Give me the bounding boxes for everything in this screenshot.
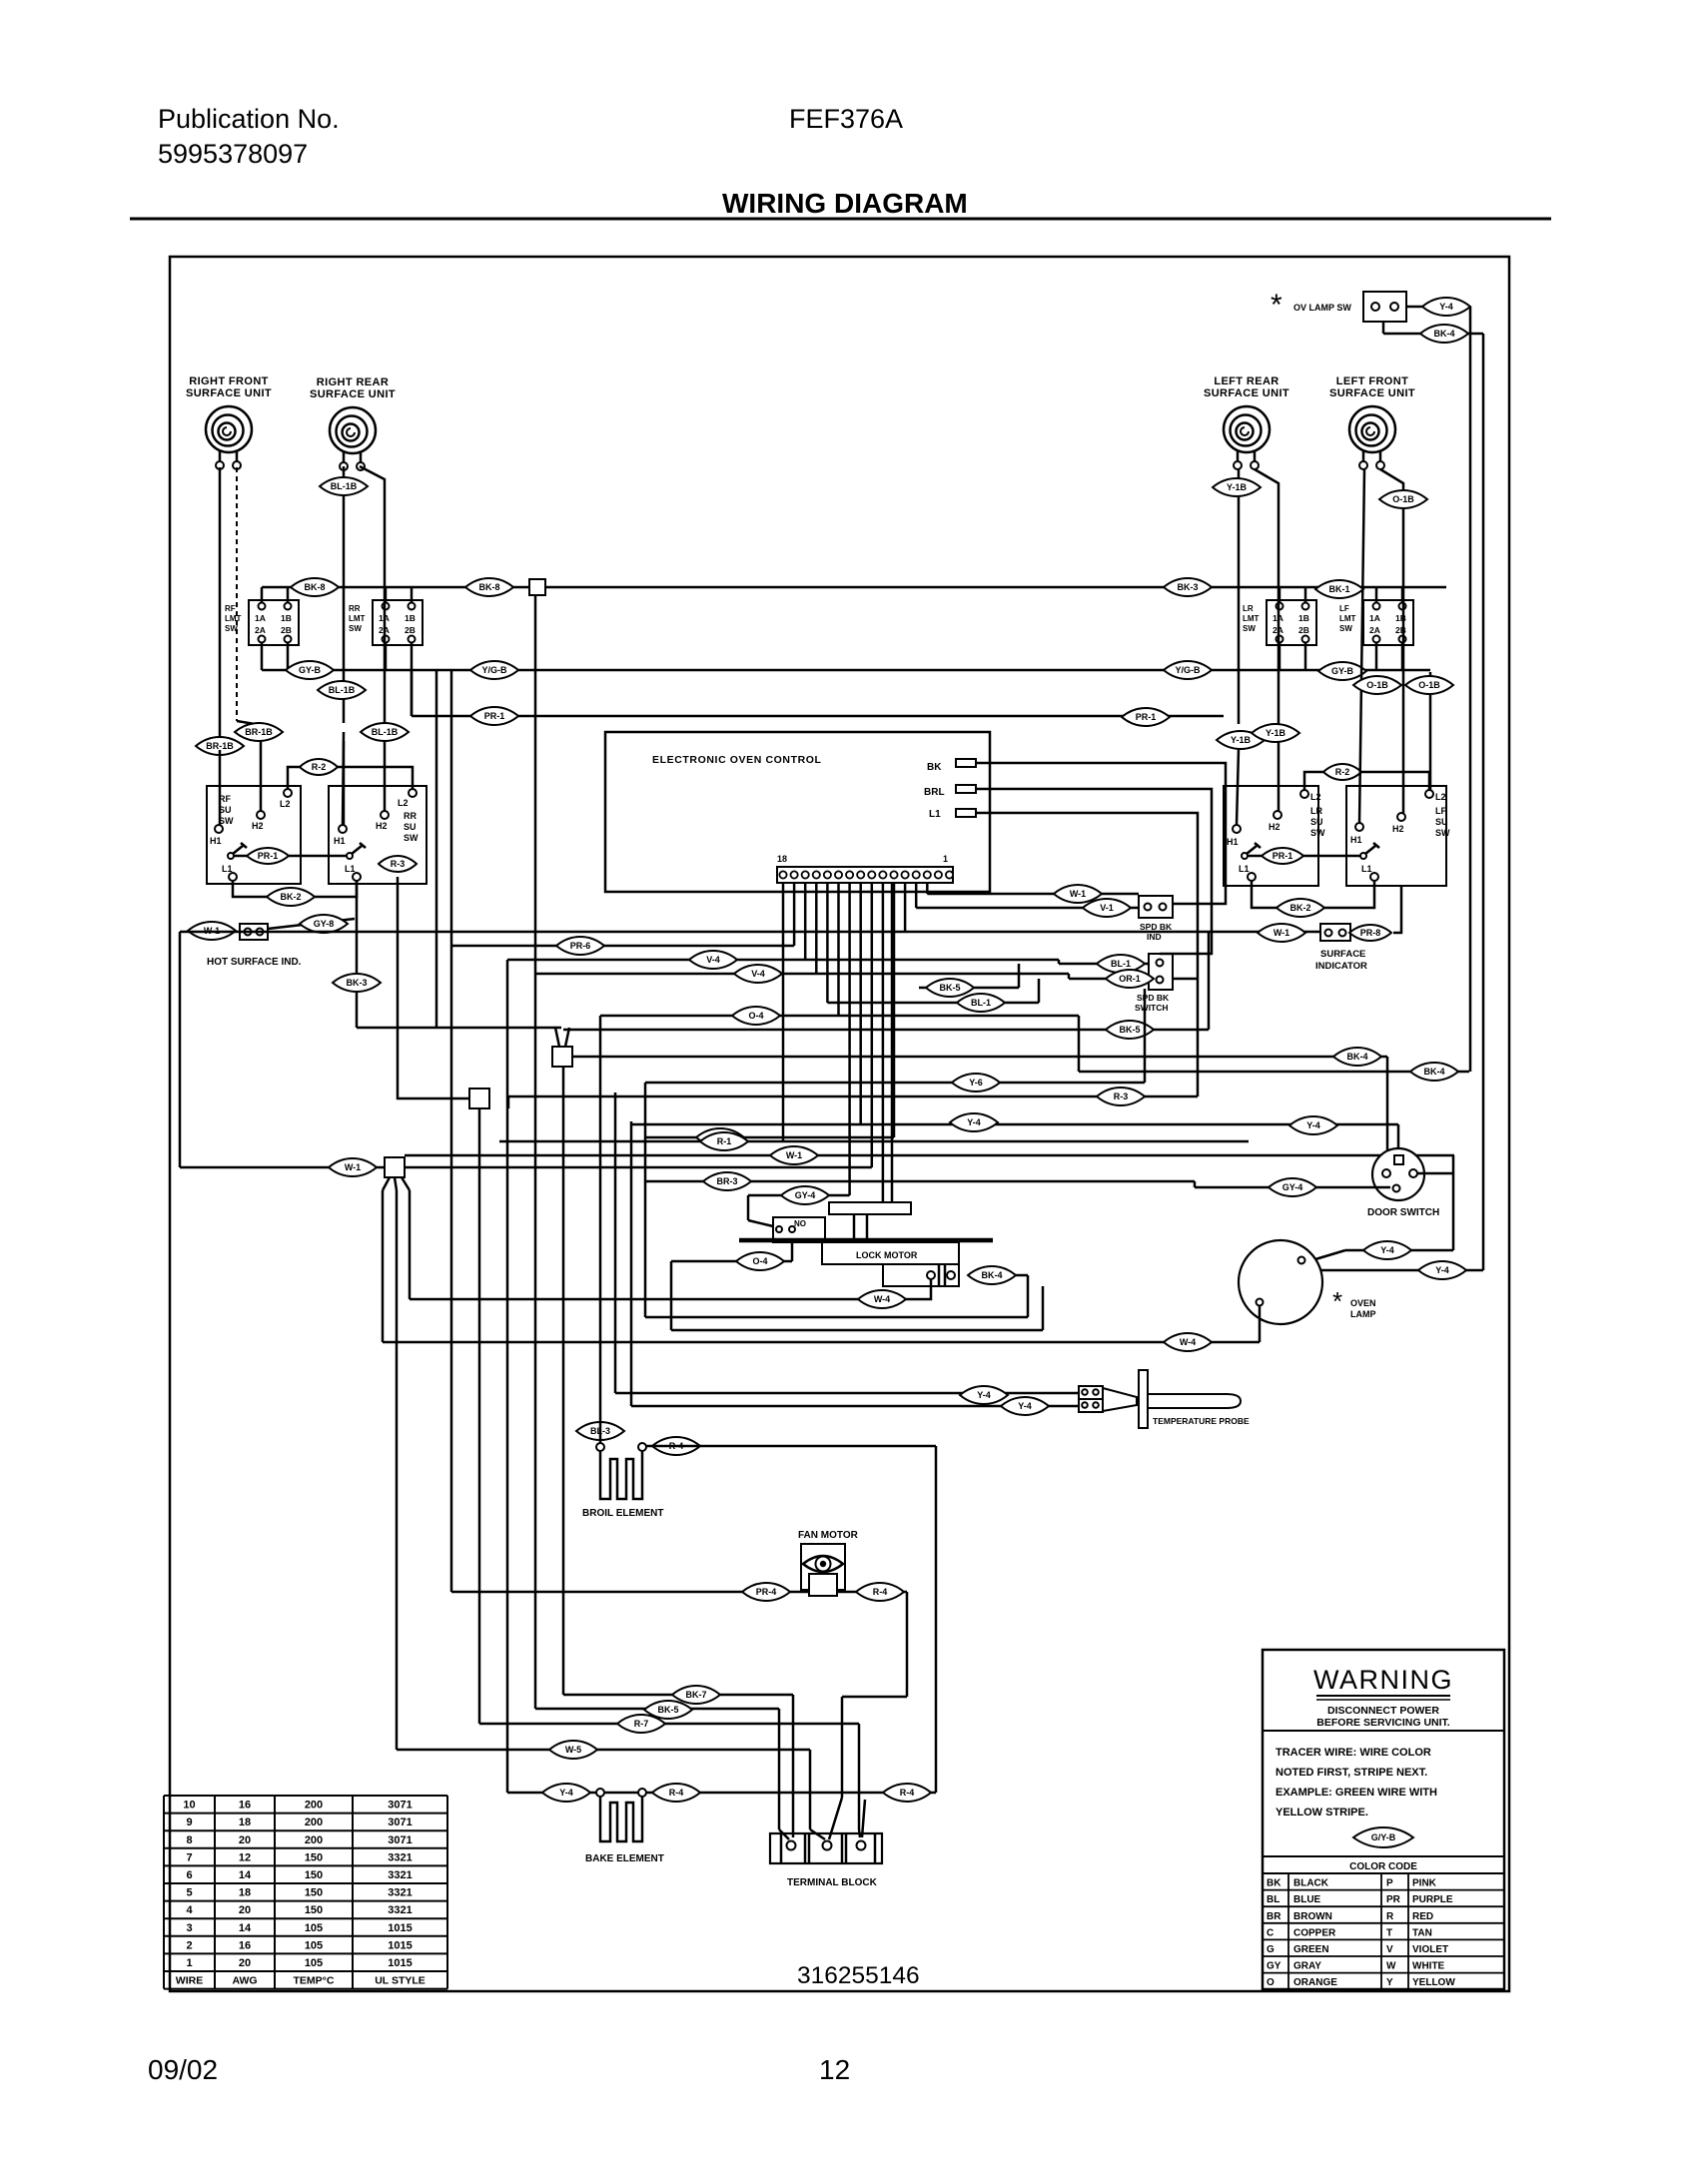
svg-text:H1: H1 — [1227, 837, 1239, 847]
svg-text:L1: L1 — [345, 864, 356, 874]
svg-text:HOT SURFACE IND.: HOT SURFACE IND. — [207, 957, 302, 968]
svg-text:BK-8: BK-8 — [304, 582, 325, 592]
svg-text:ELECTRONIC OVEN CONTROL: ELECTRONIC OVEN CONTROL — [652, 754, 822, 766]
svg-text:3: 3 — [186, 1922, 192, 1934]
svg-text:SW: SW — [219, 816, 234, 826]
svg-text:R: R — [1386, 1911, 1394, 1922]
svg-text:O-1B: O-1B — [1366, 680, 1388, 690]
svg-text:1015: 1015 — [388, 1957, 412, 1969]
svg-text:NO: NO — [794, 1219, 806, 1228]
svg-text:200: 200 — [305, 1800, 323, 1812]
svg-text:BL-1B: BL-1B — [372, 727, 399, 737]
svg-text:L2: L2 — [1435, 792, 1446, 802]
svg-text:DISCONNECT POWER: DISCONNECT POWER — [1327, 1705, 1439, 1717]
svg-text:Y-4: Y-4 — [1306, 1120, 1320, 1130]
svg-text:3071: 3071 — [388, 1817, 412, 1828]
svg-text:12: 12 — [819, 2054, 850, 2085]
svg-text:BAKE ELEMENT: BAKE ELEMENT — [585, 1853, 664, 1864]
svg-text:L2: L2 — [398, 798, 409, 808]
svg-text:OR-1: OR-1 — [1119, 974, 1141, 984]
svg-text:150: 150 — [305, 1851, 323, 1863]
svg-text:W-5: W-5 — [565, 1745, 581, 1755]
svg-text:3321: 3321 — [388, 1851, 412, 1863]
svg-text:BK-5: BK-5 — [657, 1705, 678, 1715]
svg-text:EXAMPLE: GREEN WIRE WITH: EXAMPLE: GREEN WIRE WITH — [1276, 1787, 1437, 1799]
svg-text:BK-3: BK-3 — [346, 978, 367, 988]
svg-text:PURPLE: PURPLE — [1412, 1894, 1453, 1905]
svg-text:L1: L1 — [929, 809, 941, 820]
svg-text:GRAY: GRAY — [1293, 1961, 1321, 1972]
svg-text:2B: 2B — [405, 625, 416, 635]
svg-text:BK-7: BK-7 — [685, 1690, 706, 1700]
svg-text:BK-4: BK-4 — [1433, 329, 1454, 339]
svg-text:BRL: BRL — [924, 787, 945, 798]
svg-text:LMT: LMT — [225, 614, 242, 623]
svg-text:L2: L2 — [1310, 792, 1321, 802]
svg-text:TEMPERATURE PROBE: TEMPERATURE PROBE — [1153, 1416, 1250, 1426]
svg-text:SURFACE UNIT: SURFACE UNIT — [1329, 387, 1415, 399]
svg-text:Y-6: Y-6 — [969, 1078, 983, 1088]
svg-text:L1: L1 — [1239, 864, 1250, 874]
svg-text:OV LAMP SW: OV LAMP SW — [1293, 303, 1351, 313]
svg-text:TAN: TAN — [1412, 1927, 1432, 1938]
svg-text:PR-8: PR-8 — [1360, 928, 1381, 938]
svg-text:H2: H2 — [376, 821, 388, 831]
svg-text:PR-1: PR-1 — [484, 711, 505, 721]
svg-text:316255146: 316255146 — [797, 1962, 920, 1989]
svg-text:BL: BL — [1267, 1894, 1280, 1905]
svg-text:BK-2: BK-2 — [280, 892, 301, 902]
svg-text:SURFACE: SURFACE — [1320, 949, 1365, 960]
svg-text:4: 4 — [186, 1904, 193, 1916]
svg-text:1A: 1A — [255, 613, 266, 623]
svg-text:Y/G-B: Y/G-B — [1175, 665, 1201, 675]
svg-text:3321: 3321 — [388, 1904, 412, 1916]
svg-text:NOTED FIRST, STRIPE NEXT.: NOTED FIRST, STRIPE NEXT. — [1276, 1767, 1427, 1779]
svg-text:BK-8: BK-8 — [478, 582, 499, 592]
svg-text:3071: 3071 — [388, 1800, 412, 1812]
svg-text:GY-8: GY-8 — [314, 919, 335, 929]
svg-text:BK: BK — [927, 762, 942, 773]
svg-text:105: 105 — [305, 1922, 323, 1934]
svg-text:SWITCH: SWITCH — [1135, 1003, 1169, 1013]
svg-text:SU: SU — [404, 822, 417, 832]
svg-text:10: 10 — [183, 1800, 195, 1812]
svg-text:2B: 2B — [281, 625, 292, 635]
svg-text:C: C — [1267, 1927, 1274, 1938]
svg-text:GY-B: GY-B — [1331, 666, 1354, 676]
svg-text:G/Y-B: G/Y-B — [1371, 1832, 1396, 1842]
svg-text:L1: L1 — [1361, 864, 1372, 874]
svg-text:RIGHT REAR: RIGHT REAR — [317, 376, 389, 388]
svg-text:SW: SW — [404, 833, 419, 843]
svg-text:200: 200 — [305, 1834, 323, 1846]
svg-text:R-4: R-4 — [669, 1788, 684, 1798]
svg-text:V-4: V-4 — [751, 969, 765, 979]
svg-text:BR-3: BR-3 — [716, 1176, 737, 1186]
svg-text:COLOR CODE: COLOR CODE — [1349, 1861, 1417, 1872]
svg-text:T: T — [1386, 1927, 1392, 1938]
svg-text:BK: BK — [1267, 1878, 1281, 1889]
svg-text:O-1B: O-1B — [1392, 494, 1414, 504]
svg-text:Y-4: Y-4 — [1439, 302, 1453, 312]
svg-text:1B: 1B — [1298, 613, 1309, 623]
svg-text:1A: 1A — [1369, 613, 1380, 623]
svg-text:AWG: AWG — [232, 1975, 257, 1987]
svg-text:R-7: R-7 — [634, 1719, 649, 1729]
svg-text:FEF376A: FEF376A — [789, 104, 903, 134]
svg-text:R-4: R-4 — [900, 1788, 915, 1798]
svg-text:16: 16 — [239, 1800, 251, 1812]
svg-text:H2: H2 — [252, 821, 264, 831]
svg-text:LR: LR — [1243, 604, 1254, 613]
svg-text:BL-1B: BL-1B — [329, 685, 356, 695]
svg-text:PR-1: PR-1 — [258, 851, 279, 861]
svg-text:Y-1B: Y-1B — [1266, 728, 1286, 738]
svg-text:H1: H1 — [334, 836, 346, 846]
svg-text:GY: GY — [1267, 1961, 1281, 1972]
svg-text:*: * — [1271, 289, 1282, 322]
svg-text:TERMINAL BLOCK: TERMINAL BLOCK — [787, 1877, 878, 1888]
svg-text:SPD BK: SPD BK — [1137, 993, 1170, 1003]
svg-text:SU: SU — [1435, 817, 1448, 827]
svg-text:FAN MOTOR: FAN MOTOR — [798, 1530, 859, 1541]
svg-text:5: 5 — [186, 1887, 192, 1899]
svg-text:Y/G-B: Y/G-B — [481, 665, 507, 675]
svg-text:TEMP°C: TEMP°C — [294, 1975, 335, 1987]
svg-text:Y-4: Y-4 — [1435, 1265, 1449, 1275]
svg-text:Y-4: Y-4 — [977, 1390, 991, 1400]
svg-text:Y: Y — [1386, 1977, 1393, 1988]
svg-text:W-1: W-1 — [786, 1150, 802, 1160]
svg-text:YELLOW STRIPE.: YELLOW STRIPE. — [1276, 1807, 1368, 1819]
svg-text:150: 150 — [305, 1869, 323, 1881]
svg-text:TRACER WIRE: WIRE COLOR: TRACER WIRE: WIRE COLOR — [1276, 1747, 1431, 1759]
svg-text:150: 150 — [305, 1904, 323, 1916]
svg-text:105: 105 — [305, 1939, 323, 1951]
svg-text:SW: SW — [1435, 828, 1450, 838]
svg-text:PR-6: PR-6 — [570, 941, 591, 951]
svg-text:2: 2 — [186, 1939, 192, 1951]
svg-text:L2: L2 — [280, 799, 291, 809]
svg-text:BK-1: BK-1 — [1328, 584, 1349, 594]
svg-text:9: 9 — [186, 1817, 192, 1828]
svg-text:Publication No.: Publication No. — [158, 104, 340, 134]
svg-text:12: 12 — [239, 1851, 251, 1863]
svg-text:2A: 2A — [1369, 625, 1380, 635]
svg-text:WHITE: WHITE — [1412, 1961, 1445, 1972]
svg-text:V-4: V-4 — [706, 955, 720, 965]
svg-text:14: 14 — [239, 1922, 252, 1934]
svg-text:W-4: W-4 — [874, 1294, 890, 1304]
svg-text:W-1: W-1 — [1274, 928, 1289, 938]
svg-text:3071: 3071 — [388, 1834, 412, 1846]
svg-text:R-1: R-1 — [717, 1136, 732, 1146]
svg-text:3321: 3321 — [388, 1887, 412, 1899]
svg-text:*: * — [1332, 1286, 1342, 1316]
svg-text:W: W — [1386, 1961, 1396, 1972]
svg-text:7: 7 — [186, 1851, 192, 1863]
svg-text:GY-4: GY-4 — [1282, 1182, 1303, 1192]
svg-text:LR: LR — [1310, 806, 1322, 816]
svg-text:RR: RR — [349, 604, 361, 613]
svg-text:6: 6 — [186, 1869, 192, 1881]
svg-text:3321: 3321 — [388, 1869, 412, 1881]
svg-text:BK-2: BK-2 — [1289, 903, 1310, 913]
svg-text:DOOR SWITCH: DOOR SWITCH — [1367, 1207, 1439, 1218]
svg-text:1B: 1B — [405, 613, 416, 623]
svg-text:RED: RED — [1412, 1911, 1433, 1922]
svg-text:R-3: R-3 — [1114, 1092, 1129, 1101]
svg-text:BROIL ELEMENT: BROIL ELEMENT — [582, 1508, 663, 1519]
svg-text:RIGHT FRONT: RIGHT FRONT — [189, 375, 269, 387]
svg-text:16: 16 — [239, 1939, 251, 1951]
svg-text:BK-5: BK-5 — [1119, 1025, 1140, 1035]
svg-text:200: 200 — [305, 1817, 323, 1828]
svg-text:BL-1B: BL-1B — [331, 481, 358, 491]
svg-text:105: 105 — [305, 1957, 323, 1969]
svg-text:WIRING DIAGRAM: WIRING DIAGRAM — [722, 188, 968, 219]
svg-text:UL STYLE: UL STYLE — [375, 1975, 426, 1987]
svg-text:SPD BK: SPD BK — [1140, 922, 1173, 932]
svg-text:BR-1B: BR-1B — [245, 727, 273, 737]
svg-text:Y-1B: Y-1B — [1231, 735, 1252, 745]
svg-text:O-4: O-4 — [748, 1011, 763, 1021]
svg-text:V: V — [1386, 1944, 1393, 1955]
svg-text:GY-B: GY-B — [299, 665, 322, 675]
svg-text:18: 18 — [239, 1817, 251, 1828]
svg-text:ORANGE: ORANGE — [1293, 1977, 1337, 1988]
svg-text:H2: H2 — [1392, 824, 1404, 834]
svg-text:2B: 2B — [1298, 625, 1309, 635]
svg-text:Y-1B: Y-1B — [1227, 482, 1248, 492]
svg-text:LMT: LMT — [1339, 614, 1356, 623]
svg-text:1: 1 — [943, 854, 948, 864]
svg-text:O-1B: O-1B — [1418, 680, 1440, 690]
svg-text:BR: BR — [1267, 1911, 1281, 1922]
svg-text:LAMP: LAMP — [1350, 1309, 1376, 1319]
svg-text:1: 1 — [186, 1957, 192, 1969]
svg-text:R-2: R-2 — [312, 762, 327, 772]
svg-text:P: P — [1386, 1878, 1393, 1889]
svg-text:RR: RR — [404, 811, 417, 821]
svg-text:2A: 2A — [255, 625, 266, 635]
svg-text:PINK: PINK — [1412, 1878, 1437, 1889]
svg-text:Y-4: Y-4 — [559, 1788, 573, 1798]
svg-text:20: 20 — [239, 1834, 251, 1846]
svg-text:SW: SW — [1339, 624, 1352, 633]
svg-text:COPPER: COPPER — [1293, 1927, 1336, 1938]
svg-text:Y-4: Y-4 — [1380, 1245, 1394, 1255]
svg-text:LF: LF — [1339, 604, 1349, 613]
svg-text:O: O — [1267, 1977, 1275, 1988]
svg-text:1B: 1B — [281, 613, 292, 623]
svg-text:1015: 1015 — [388, 1939, 412, 1951]
svg-text:SW: SW — [1243, 624, 1256, 633]
svg-text:W-1: W-1 — [345, 1162, 361, 1172]
svg-text:W-1: W-1 — [1070, 889, 1086, 899]
svg-text:20: 20 — [239, 1957, 251, 1969]
svg-text:BL-1: BL-1 — [1111, 959, 1131, 969]
svg-text:8: 8 — [186, 1834, 192, 1846]
svg-text:LF: LF — [1435, 806, 1446, 816]
svg-text:OVEN: OVEN — [1350, 1298, 1376, 1308]
svg-text:5995378097: 5995378097 — [158, 139, 308, 169]
svg-text:GREEN: GREEN — [1293, 1944, 1329, 1955]
svg-text:18: 18 — [777, 854, 787, 864]
svg-text:PR-1: PR-1 — [1273, 851, 1293, 861]
svg-text:PR-4: PR-4 — [756, 1587, 777, 1597]
svg-text:R-2: R-2 — [1335, 767, 1350, 777]
svg-text:VIOLET: VIOLET — [1412, 1944, 1448, 1955]
svg-text:O-4: O-4 — [752, 1256, 767, 1266]
svg-text:BK-4: BK-4 — [981, 1270, 1002, 1280]
svg-text:RF: RF — [225, 604, 236, 613]
svg-text:LMT: LMT — [1243, 614, 1260, 623]
svg-text:SW: SW — [1310, 828, 1325, 838]
svg-text:BK-5: BK-5 — [939, 983, 960, 993]
svg-text:YELLOW: YELLOW — [1412, 1977, 1455, 1988]
svg-text:H1: H1 — [1350, 835, 1362, 845]
svg-text:SURFACE UNIT: SURFACE UNIT — [186, 387, 272, 399]
svg-text:LEFT REAR: LEFT REAR — [1214, 375, 1279, 387]
svg-text:G: G — [1267, 1944, 1275, 1955]
svg-text:BK-4: BK-4 — [1346, 1052, 1367, 1062]
svg-text:BLACK: BLACK — [1293, 1878, 1329, 1889]
svg-text:INDICATOR: INDICATOR — [1315, 961, 1367, 972]
svg-text:W-4: W-4 — [1180, 1337, 1196, 1347]
svg-text:H1: H1 — [210, 836, 222, 846]
svg-text:R-3: R-3 — [391, 859, 406, 869]
svg-text:SURFACE UNIT: SURFACE UNIT — [310, 388, 396, 400]
svg-text:SW: SW — [349, 624, 362, 633]
svg-text:09/02: 09/02 — [148, 2054, 218, 2085]
svg-text:GY-4: GY-4 — [795, 1190, 816, 1200]
svg-text:BEFORE SERVICING UNIT.: BEFORE SERVICING UNIT. — [1316, 1717, 1449, 1729]
svg-text:PR: PR — [1386, 1894, 1401, 1905]
svg-text:Y-4: Y-4 — [1018, 1401, 1032, 1411]
svg-text:Y-4: Y-4 — [967, 1117, 981, 1127]
svg-text:BR-1B: BR-1B — [206, 741, 234, 751]
svg-text:SU: SU — [1310, 817, 1323, 827]
svg-text:14: 14 — [239, 1869, 252, 1881]
svg-text:V-1: V-1 — [1100, 903, 1114, 913]
svg-text:LEFT FRONT: LEFT FRONT — [1336, 375, 1408, 387]
svg-text:IND: IND — [1147, 932, 1162, 942]
svg-text:18: 18 — [239, 1887, 251, 1899]
svg-text:R-4: R-4 — [873, 1587, 888, 1597]
svg-text:150: 150 — [305, 1887, 323, 1899]
svg-text:1015: 1015 — [388, 1922, 412, 1934]
svg-text:BL-1: BL-1 — [971, 998, 991, 1008]
svg-text:H2: H2 — [1269, 822, 1281, 832]
svg-text:WARNING: WARNING — [1313, 1665, 1453, 1695]
svg-text:BK-3: BK-3 — [1177, 582, 1198, 592]
svg-text:20: 20 — [239, 1904, 251, 1916]
svg-text:BROWN: BROWN — [1293, 1911, 1332, 1922]
svg-text:BLUE: BLUE — [1293, 1894, 1321, 1905]
svg-text:LMT: LMT — [349, 614, 366, 623]
svg-text:LOCK MOTOR: LOCK MOTOR — [856, 1250, 918, 1260]
svg-text:PR-1: PR-1 — [1136, 712, 1157, 722]
svg-text:BK-4: BK-4 — [1423, 1067, 1444, 1077]
svg-text:SURFACE UNIT: SURFACE UNIT — [1204, 387, 1289, 399]
svg-text:WIRE: WIRE — [176, 1975, 203, 1987]
